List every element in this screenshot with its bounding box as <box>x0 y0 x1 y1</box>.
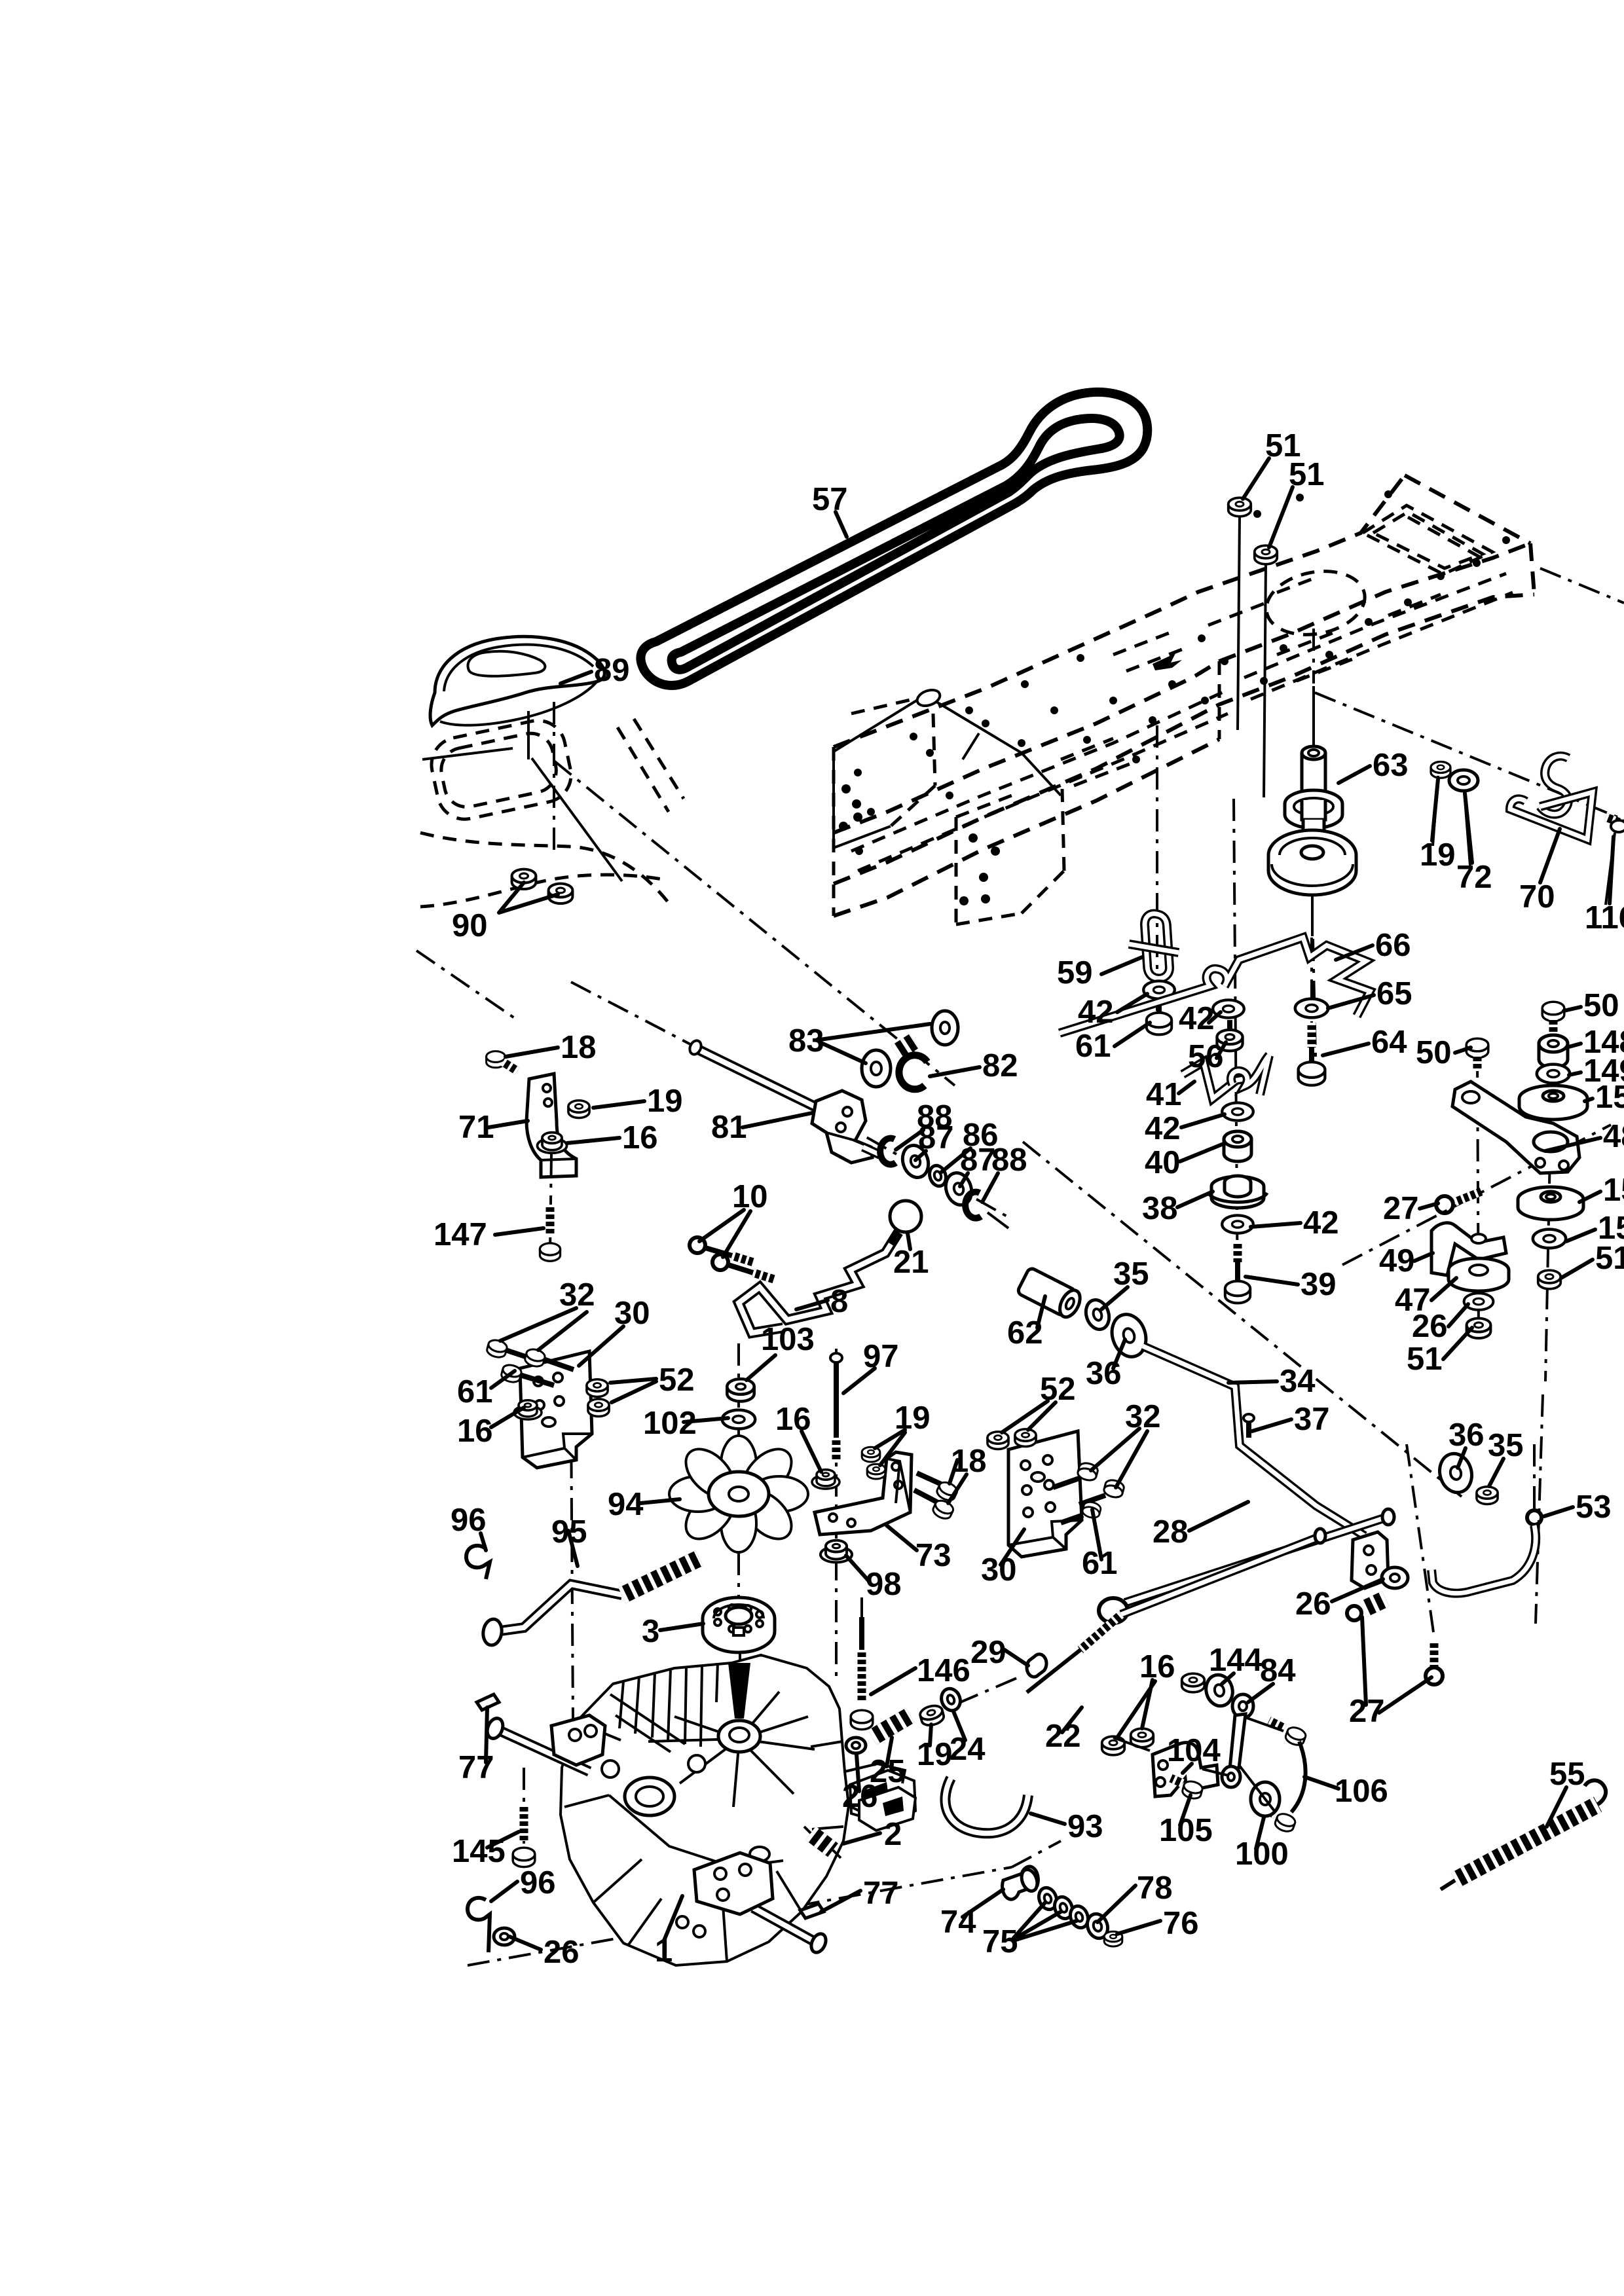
svg-text:36: 36 <box>1086 1356 1122 1391</box>
direction arrow <box>1153 653 1182 670</box>
svg-text:42: 42 <box>1078 994 1114 1030</box>
svg-text:90: 90 <box>452 908 488 943</box>
spacer 40 <box>1224 1131 1251 1161</box>
chassis frame (hidden, dashed) <box>416 475 1624 1497</box>
label 2 <box>843 1833 880 1844</box>
svg-text:98: 98 <box>866 1567 902 1602</box>
label 56 <box>1217 1042 1226 1058</box>
label 36 b <box>1458 1448 1466 1468</box>
svg-text:94: 94 <box>608 1487 644 1522</box>
bracket 71 <box>526 1074 576 1177</box>
svg-text:75: 75 <box>982 1924 1018 1959</box>
frame top face near edge <box>834 543 1530 833</box>
left shift-lever group <box>487 982 1012 1333</box>
label 40 <box>1180 1144 1222 1161</box>
label 52 b <box>1002 1401 1056 1432</box>
eye bolt 27 b <box>1430 1641 1439 1667</box>
svg-text:78: 78 <box>1137 1870 1173 1906</box>
label 49 <box>1414 1253 1433 1261</box>
pin 77 lower <box>800 1904 824 1918</box>
rod 28 anchor bracket <box>1352 1532 1388 1588</box>
svg-text:83: 83 <box>788 1023 824 1059</box>
bolt 106 top <box>1284 1725 1308 1747</box>
sleeve 74 <box>1003 1867 1039 1899</box>
svg-text:59: 59 <box>1057 955 1093 991</box>
svg-text:26: 26 <box>1412 1309 1448 1344</box>
label 35 a <box>1101 1287 1128 1309</box>
svg-text:72: 72 <box>1456 860 1492 895</box>
bolt 116 <box>1606 817 1623 824</box>
label 147 <box>495 1228 544 1235</box>
svg-text:96: 96 <box>451 1503 487 1538</box>
nut 51 <box>1467 1319 1491 1338</box>
svg-text:51: 51 <box>1595 1241 1624 1276</box>
washer 151 <box>1533 1230 1566 1248</box>
bolts 32 left <box>486 1338 508 1359</box>
washer 42 b <box>1213 1000 1244 1017</box>
stub shaft <box>863 1147 880 1155</box>
frame front left plate <box>834 691 932 848</box>
stud centerline <box>553 702 555 856</box>
frame second cross plate <box>956 789 1064 924</box>
e-clip 88 b <box>965 1192 981 1218</box>
spring 2 <box>811 1833 833 1850</box>
bolt 51 a <box>1228 498 1251 517</box>
label 87 b <box>960 1173 968 1186</box>
label 73 <box>887 1525 917 1550</box>
diagonal centerline through 27 <box>1342 1125 1611 1265</box>
frame hole dots <box>854 490 1510 855</box>
centerline through 59/42/61 <box>1156 725 1158 1027</box>
frame right end edge <box>1405 475 1534 594</box>
centerline fan axis <box>739 1343 740 1676</box>
svg-text:116: 116 <box>1585 900 1624 936</box>
label 145 <box>487 1832 519 1848</box>
spring on rod 95 <box>622 1558 699 1595</box>
svg-text:102: 102 <box>643 1406 697 1441</box>
label 150 b <box>1579 1192 1600 1202</box>
label 52 a <box>610 1379 656 1402</box>
spring 25 <box>872 1715 910 1738</box>
centerline through 27 b <box>1407 1444 1434 1637</box>
centerline 97 axis <box>835 1349 838 1676</box>
centerline left stack <box>1477 1055 1479 1336</box>
label 32 b <box>1091 1429 1147 1487</box>
nut 16 center <box>812 1470 840 1489</box>
svg-text:103: 103 <box>761 1322 815 1357</box>
label 70 <box>1540 829 1560 883</box>
svg-text:55: 55 <box>1549 1757 1585 1792</box>
washer 26 lower-left <box>494 1928 515 1945</box>
label 77 a <box>486 1707 487 1762</box>
svg-text:100: 100 <box>1235 1836 1289 1872</box>
connecting line 104-84 <box>1113 1718 1283 1811</box>
label 81 <box>743 1113 812 1127</box>
label 19 c <box>1432 779 1438 841</box>
svg-text:2: 2 <box>884 1817 902 1852</box>
spacer 86 <box>927 1163 949 1188</box>
svg-text:82: 82 <box>982 1048 1018 1084</box>
pulley 150 a <box>1519 1085 1587 1112</box>
bolt 61 a <box>1156 1000 1162 1016</box>
svg-text:8: 8 <box>830 1284 848 1319</box>
pulley 63 upper sheave <box>1285 790 1342 818</box>
svg-text:64: 64 <box>1371 1025 1407 1060</box>
case panel lines <box>564 1722 843 1961</box>
svg-text:34: 34 <box>1280 1364 1316 1399</box>
label 21 <box>908 1233 910 1249</box>
label 51 d <box>1443 1328 1472 1359</box>
label 65 <box>1328 995 1374 1008</box>
label 42 a <box>1117 994 1147 1012</box>
svg-text:28: 28 <box>1153 1514 1189 1550</box>
bolt 97 <box>834 1360 839 1438</box>
label 93 <box>1031 1813 1065 1824</box>
svg-text:93: 93 <box>1067 1809 1103 1844</box>
label 26 a <box>1449 1304 1468 1326</box>
brake bracket 49 <box>1431 1223 1506 1275</box>
nut 16 pair upper <box>1182 1673 1205 1692</box>
svg-text:73: 73 <box>915 1538 951 1573</box>
label 78 <box>1098 1886 1135 1922</box>
bolt 61 right <box>1081 1501 1101 1520</box>
frame middle detail dashes <box>1061 594 1441 786</box>
bolt 39 <box>1234 1241 1242 1262</box>
shift lever 8 <box>739 1232 898 1333</box>
svg-text:50: 50 <box>1583 988 1619 1023</box>
svg-text:105: 105 <box>1159 1813 1213 1848</box>
wire form 41 <box>1183 1062 1244 1099</box>
eye bolt 27 <box>1455 1192 1481 1202</box>
bolt 105 <box>1181 1779 1204 1800</box>
frame left end edge <box>832 747 836 916</box>
svg-text:16: 16 <box>457 1413 493 1449</box>
label 61 b <box>491 1371 515 1388</box>
label 88 a <box>896 1130 923 1150</box>
rod 28 left eye <box>1099 1598 1128 1623</box>
svg-text:18: 18 <box>561 1030 597 1065</box>
svg-text:61: 61 <box>1082 1546 1118 1581</box>
brake rod 28 <box>1125 1518 1386 1603</box>
svg-text:35: 35 <box>1488 1428 1524 1463</box>
svg-text:150: 150 <box>1603 1173 1624 1208</box>
washer 35 a <box>1082 1297 1113 1332</box>
bolt 147 <box>550 1154 551 1250</box>
svg-text:39: 39 <box>1301 1267 1337 1302</box>
label 94 <box>640 1499 680 1503</box>
label 53 <box>1544 1507 1573 1516</box>
label 97 <box>843 1368 875 1393</box>
svg-text:32: 32 <box>1125 1399 1161 1434</box>
svg-text:19: 19 <box>1420 837 1456 873</box>
label 50 a <box>1564 1007 1581 1011</box>
svg-text:51: 51 <box>1289 457 1325 492</box>
centerline 29 to 24 <box>957 1676 1022 1704</box>
nut 90 a <box>512 869 536 889</box>
label 62 <box>1037 1296 1045 1328</box>
pulley 47 <box>1449 1258 1509 1282</box>
label 75 <box>1014 1903 1077 1941</box>
frame top face far edge <box>834 475 1405 747</box>
label 18 b <box>948 1460 967 1503</box>
label 16 d <box>567 1138 619 1143</box>
label 25 <box>887 1738 892 1766</box>
label 86 <box>942 1148 970 1172</box>
bracket 30 right <box>1008 1431 1082 1557</box>
nut 90 b <box>549 884 573 903</box>
svg-text:51: 51 <box>1407 1341 1443 1377</box>
label 16 c <box>1117 1680 1155 1738</box>
label 50 b <box>1455 1048 1471 1053</box>
frame inner cross member <box>936 702 1061 795</box>
nut 19 right <box>919 1704 946 1727</box>
label 3 <box>660 1624 703 1630</box>
nuts 19 pair <box>862 1447 880 1462</box>
brake caliper detail <box>850 1770 915 1824</box>
svg-text:42: 42 <box>1303 1205 1339 1241</box>
svg-text:52: 52 <box>1040 1372 1076 1407</box>
transaxle case 1 <box>561 1655 849 1965</box>
label 77 b <box>821 1891 860 1912</box>
nut 16 flanged <box>538 1133 567 1154</box>
label 98 <box>846 1556 868 1580</box>
svg-text:145: 145 <box>452 1834 506 1869</box>
label 38 <box>1177 1192 1213 1207</box>
idler arm 48 <box>1452 1082 1579 1173</box>
left axle tube <box>498 1730 589 1772</box>
label 55 <box>1547 1787 1566 1827</box>
long centerline to lower left <box>416 761 1462 1497</box>
svg-text:88: 88 <box>991 1142 1027 1178</box>
shift shaft 81 <box>695 1048 820 1109</box>
svg-text:87: 87 <box>918 1120 954 1156</box>
battery opening inner <box>1373 512 1483 568</box>
nut 19 <box>568 1101 589 1118</box>
shift knob 21 <box>890 1201 921 1232</box>
svg-text:147: 147 <box>434 1217 487 1252</box>
svg-text:29: 29 <box>970 1635 1006 1670</box>
fender shift opening inner (dashed) <box>437 729 561 811</box>
nut 103 <box>727 1379 754 1401</box>
washer 26 mid-lower <box>846 1738 866 1753</box>
axis line through shaft 81 <box>571 982 1012 1219</box>
label 82 <box>930 1067 980 1076</box>
roller 62 <box>1017 1267 1084 1320</box>
svg-text:16: 16 <box>775 1402 811 1437</box>
washer 42 a <box>1143 981 1175 998</box>
svg-text:66: 66 <box>1375 928 1411 963</box>
svg-text:150: 150 <box>1595 1080 1624 1115</box>
label 57 <box>836 512 847 537</box>
washer 26 <box>1464 1293 1494 1310</box>
nut 98 <box>821 1540 852 1563</box>
label 51 c <box>1561 1260 1593 1278</box>
svg-text:57: 57 <box>812 482 848 517</box>
label 29 <box>1005 1650 1028 1666</box>
svg-text:61: 61 <box>1075 1029 1111 1064</box>
label 16 b <box>802 1431 821 1472</box>
retaining clip 82 <box>899 1055 927 1089</box>
label 87 a <box>915 1151 926 1160</box>
label 19 b <box>875 1430 905 1465</box>
label 39 <box>1246 1277 1298 1285</box>
label 24 <box>953 1711 965 1740</box>
label 148 <box>1566 1044 1581 1048</box>
svg-text:30: 30 <box>981 1552 1017 1588</box>
washer 102 <box>722 1410 755 1429</box>
nuts 52 right <box>987 1432 1008 1449</box>
svg-text:3: 3 <box>642 1614 659 1649</box>
svg-text:87: 87 <box>960 1142 996 1178</box>
cooling fins <box>610 1663 718 1752</box>
centerline toward parts 70/116 <box>1315 693 1617 817</box>
label 74 <box>963 1889 1003 1917</box>
label 146 <box>871 1668 915 1694</box>
label 90 <box>499 883 558 913</box>
link 84 <box>1232 1694 1253 1718</box>
svg-text:32: 32 <box>559 1277 595 1313</box>
wire form 66 <box>1060 938 1370 1033</box>
washer 78 <box>1084 1911 1111 1941</box>
fender surface dashed curve B <box>420 875 669 907</box>
svg-text:16: 16 <box>1139 1649 1175 1685</box>
svg-text:81: 81 <box>711 1110 747 1145</box>
part number labels with leaders <box>434 428 1624 1970</box>
svg-text:97: 97 <box>863 1339 899 1374</box>
washer 36 a <box>1107 1310 1151 1361</box>
spacer 148 <box>1539 1035 1568 1068</box>
svg-text:36: 36 <box>1449 1417 1485 1453</box>
label 30 b <box>1001 1529 1024 1565</box>
svg-text:19: 19 <box>895 1400 931 1436</box>
centerline right stack <box>1536 1021 1553 1624</box>
bolt 145 <box>523 1768 525 1866</box>
svg-text:84: 84 <box>1260 1653 1296 1688</box>
svg-text:71: 71 <box>458 1110 494 1145</box>
right axle shaft <box>753 1908 817 1943</box>
washer 42 d <box>1222 1215 1253 1233</box>
bracket 30 left <box>520 1351 592 1468</box>
svg-text:27: 27 <box>1383 1191 1419 1226</box>
centerline through 65/64 <box>1310 938 1313 1079</box>
label 102 <box>684 1418 728 1422</box>
washers 75 <box>1036 1886 1060 1912</box>
washer 42 c <box>1222 1102 1253 1120</box>
bracket 73 <box>815 1452 912 1535</box>
pulley 63 lower sheave (deep) <box>1268 830 1356 880</box>
nut 76 <box>1104 1931 1122 1946</box>
label 103 <box>747 1355 775 1380</box>
svg-text:50: 50 <box>1416 1035 1452 1070</box>
bolt 146 <box>860 1597 863 1676</box>
washer 36 b <box>1435 1450 1476 1496</box>
middle idler stacks <box>1060 725 1370 1303</box>
label 32 a <box>500 1308 587 1350</box>
svg-text:56: 56 <box>1188 1039 1224 1074</box>
svg-text:48: 48 <box>1603 1119 1624 1154</box>
svg-text:65: 65 <box>1376 976 1412 1011</box>
frame side face bottom edge <box>834 594 1534 884</box>
lift rod 95 <box>496 1584 622 1631</box>
label 51 b <box>1269 487 1293 547</box>
label 42 b <box>1209 1012 1221 1023</box>
nuts 52 left <box>587 1379 608 1397</box>
label 18 a <box>506 1048 558 1057</box>
nut 19 near 72 <box>1431 762 1450 778</box>
svg-text:106: 106 <box>1335 1774 1388 1809</box>
parts 83 washers and spring <box>862 1050 891 1087</box>
label 26 d <box>509 1937 541 1950</box>
svg-text:21: 21 <box>893 1245 929 1280</box>
svg-text:24: 24 <box>950 1732 986 1767</box>
label 95 <box>568 1531 578 1566</box>
svg-text:61: 61 <box>457 1374 493 1410</box>
wire retainer 59 <box>1145 914 1170 979</box>
svg-text:27: 27 <box>1349 1694 1385 1729</box>
bolt 51 b <box>1255 545 1278 564</box>
washer 87 a <box>898 1142 932 1180</box>
frame mid rail dashes <box>851 574 1513 871</box>
label 104 <box>1183 1764 1192 1773</box>
label 30 a <box>579 1326 623 1366</box>
clutch rod 34 <box>1143 1346 1365 1536</box>
washer 149 <box>1537 1065 1570 1084</box>
spring 55 <box>1455 1804 1598 1880</box>
label 27 b <box>1362 1617 1431 1713</box>
label 35 b <box>1489 1459 1504 1486</box>
label 61 a <box>1115 1023 1150 1046</box>
label 105 <box>1180 1795 1190 1825</box>
label 10 <box>699 1210 750 1257</box>
label 149 <box>1569 1072 1581 1075</box>
center fan/bracket group <box>486 1338 1126 1820</box>
bolts 32 right <box>1077 1461 1099 1482</box>
svg-text:18: 18 <box>951 1444 987 1479</box>
label 22 <box>1062 1707 1082 1732</box>
flat idler pulley 38 <box>1211 1176 1264 1196</box>
washer 144 <box>1202 1672 1236 1709</box>
bolt 18 <box>487 1051 506 1068</box>
washer 24 <box>938 1686 963 1713</box>
input pulley 3 <box>703 1597 775 1639</box>
pin 77 upper <box>477 1694 499 1710</box>
centerline through 42/56/41/40/38/39 <box>1234 799 1238 1296</box>
bolts 18 pair <box>917 1473 946 1486</box>
label 28 <box>1189 1502 1248 1531</box>
label 51 a <box>1243 458 1269 499</box>
svg-text:38: 38 <box>1142 1191 1178 1226</box>
right idler arm assembly <box>1342 1002 1611 1624</box>
transaxle group <box>466 1546 1606 1965</box>
centerline bracket 30 left <box>571 1414 574 1820</box>
svg-text:104: 104 <box>1167 1733 1221 1768</box>
rod 53 <box>1527 1510 1541 1525</box>
label 47 <box>1431 1278 1456 1300</box>
label 59 <box>1101 957 1142 974</box>
label 150 a <box>1585 1099 1593 1101</box>
left axle mount ears <box>551 1715 605 1765</box>
bracket 104 <box>1153 1743 1218 1796</box>
right axle mount <box>694 1853 773 1914</box>
svg-text:77: 77 <box>863 1876 899 1911</box>
svg-text:89: 89 <box>594 653 630 688</box>
svg-text:146: 146 <box>917 1653 970 1688</box>
svg-text:74: 74 <box>940 1904 976 1940</box>
cover mounting stud lines <box>527 711 530 759</box>
label 37 <box>1252 1419 1291 1431</box>
pulley 150 b <box>1518 1187 1583 1212</box>
label 66 <box>1336 945 1373 960</box>
